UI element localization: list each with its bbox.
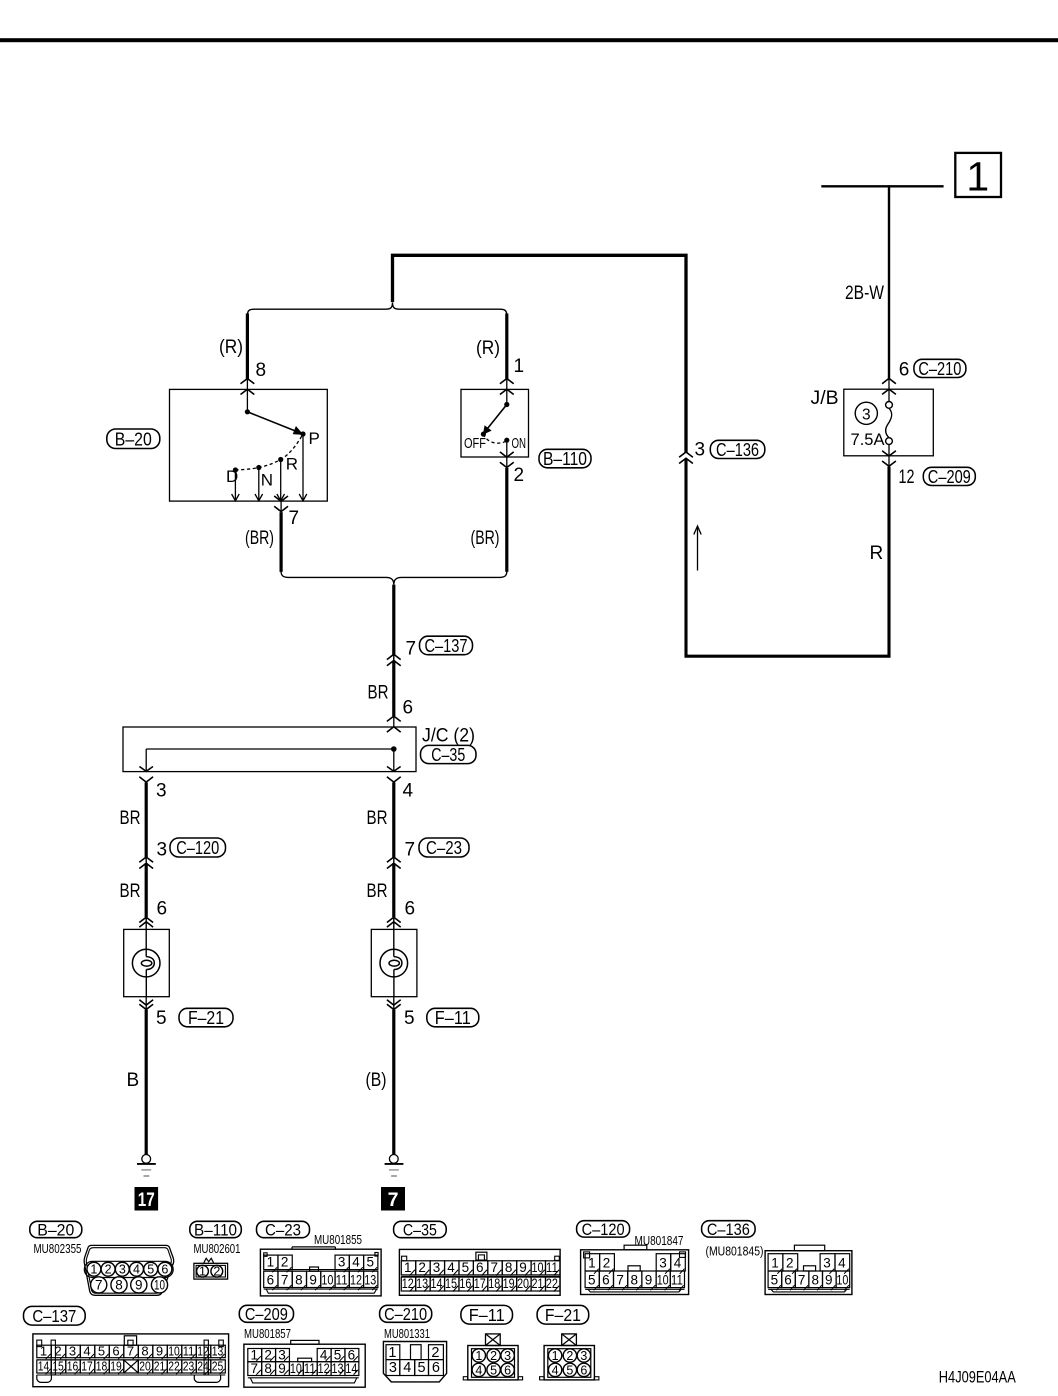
svg-text:1: 1 — [771, 1256, 779, 1271]
current direction arrow up — [697, 528, 699, 571]
C-137 cavity 4 — [80, 1345, 95, 1358]
svg-text:1: 1 — [552, 1349, 559, 1363]
C-137 cavity 3 — [66, 1345, 81, 1358]
C-137 cavity 14 — [37, 1360, 52, 1373]
svg-text:5: 5 — [98, 1344, 105, 1359]
svg-text:22: 22 — [168, 1359, 180, 1374]
C-209 cavity 8 — [262, 1362, 276, 1376]
dashed selector arc D-N-R-P — [235, 434, 303, 470]
joint connector J/C(2) box — [123, 727, 416, 772]
svg-text:8: 8 — [141, 1344, 148, 1359]
svg-text:17: 17 — [138, 1189, 155, 1211]
F-11 cavity 2 — [487, 1349, 500, 1362]
C-209 cavity 1 — [248, 1349, 262, 1362]
svg-text:11: 11 — [304, 1361, 316, 1376]
connector label pill C-136 — [710, 440, 765, 458]
svg-text:6: 6 — [112, 1344, 119, 1359]
brace merging BR wires — [281, 572, 507, 585]
svg-text:1: 1 — [388, 1345, 396, 1361]
svg-text:R: R — [870, 543, 884, 564]
B-20 cavity 5 — [144, 1262, 158, 1276]
svg-text:8: 8 — [505, 1260, 513, 1275]
svg-text:5: 5 — [156, 1008, 167, 1029]
svg-text:3: 3 — [580, 1349, 587, 1363]
C-23 cavity 12 — [349, 1271, 363, 1287]
C-35 cavity 1 — [401, 1261, 415, 1275]
B-20 position line D with arrow — [234, 470, 236, 500]
off-page reference box 1 — [955, 153, 1001, 197]
C-137 cavity 6 — [109, 1345, 124, 1358]
svg-text:4: 4 — [403, 781, 414, 802]
B-20 cavity 7 — [91, 1277, 107, 1293]
svg-text:H4J09E04AA: H4J09E04AA — [939, 1368, 1016, 1386]
svg-text:13: 13 — [332, 1361, 344, 1376]
legend pill C-137 — [24, 1306, 86, 1325]
C-209 cavity 6 — [345, 1349, 359, 1362]
wire BR from C-137 to J/C — [392, 661, 395, 717]
C-209 cavity 4 — [317, 1349, 331, 1362]
rear combination lamp left box — [124, 929, 170, 996]
svg-text:4: 4 — [83, 1344, 90, 1359]
svg-text:3: 3 — [823, 1256, 831, 1271]
C-209 cavity 9 — [276, 1362, 290, 1376]
B-20 cavity 8 — [111, 1277, 127, 1293]
svg-text:C–23: C–23 — [426, 837, 462, 858]
C-35 cavity 2 — [416, 1261, 430, 1275]
connector label pill B-20 — [107, 429, 160, 449]
svg-text:3: 3 — [659, 1256, 667, 1271]
C-23 cavity 4 — [349, 1255, 363, 1270]
F-11 cavity 4 — [472, 1363, 485, 1376]
connector label pill C-35 — [421, 745, 477, 763]
svg-text:1: 1 — [267, 1255, 275, 1270]
C-136 cavity 8 — [809, 1271, 823, 1288]
legend pill C-23 — [257, 1221, 310, 1237]
B-20 cavity 4 — [130, 1262, 144, 1276]
C-210 keyway cavity — [411, 1345, 422, 1360]
C-120 cavity 7 — [614, 1271, 628, 1288]
switch B-20 box (transmission range switch) — [170, 389, 328, 501]
C-136 cavity 1 — [768, 1254, 783, 1271]
svg-text:13: 13 — [364, 1273, 376, 1288]
bulb symbol right — [393, 917, 395, 956]
svg-text:1: 1 — [404, 1260, 412, 1275]
svg-text:24: 24 — [197, 1359, 209, 1374]
C-35 cavity 13 — [416, 1277, 430, 1291]
legend pill B-110 — [190, 1221, 242, 1237]
svg-text:6: 6 — [602, 1273, 610, 1288]
C-23 cavity 8 — [292, 1271, 306, 1287]
svg-text:C–120: C–120 — [582, 1220, 625, 1239]
C-35 cavity 5 — [459, 1261, 473, 1275]
C-35 cavity 14 — [430, 1277, 444, 1291]
J/C internal bus wire — [146, 748, 394, 750]
F-21 cavity 6 — [577, 1363, 590, 1376]
svg-text:C–210: C–210 — [384, 1304, 427, 1324]
svg-text:6: 6 — [899, 360, 910, 381]
F-21 cavity 4 — [548, 1363, 561, 1376]
wire BR C-120 to lamp — [145, 863, 148, 917]
svg-text:C–35: C–35 — [431, 744, 465, 765]
F-21 cavity 2 — [563, 1349, 576, 1362]
legend pill B-20 — [30, 1221, 82, 1237]
dashed arc OFF-ON — [483, 434, 506, 443]
svg-text:P: P — [309, 429, 320, 448]
C-120 cavity 3 — [656, 1254, 671, 1271]
C-120 cavity 8 — [628, 1271, 642, 1288]
B-110 cavity 1 — [197, 1265, 209, 1277]
svg-text:8: 8 — [256, 360, 267, 381]
connector label pill B-110 — [539, 449, 591, 468]
C-209 cavity 7 — [248, 1362, 262, 1376]
C-120 cavity 4 — [671, 1254, 686, 1271]
connector crossing out of right lamp pin 5 — [393, 997, 395, 1011]
connector label pill F-21 — [179, 1008, 233, 1027]
svg-text:7: 7 — [388, 1189, 399, 1211]
C-137 cavity 13 — [211, 1345, 226, 1358]
C-137 cavity 15 — [51, 1360, 66, 1373]
J/C junction dot — [391, 746, 397, 752]
B-20 position line N with arrow — [258, 468, 260, 501]
C-120 cavity 11 — [670, 1271, 684, 1288]
top border rule — [0, 38, 1058, 42]
svg-text:7.5A: 7.5A — [851, 430, 886, 449]
C-35 cavity 3 — [430, 1261, 444, 1275]
B-110 wire ON to pin 2 — [506, 440, 508, 457]
F-11 cavity 3 — [501, 1349, 514, 1362]
svg-text:2: 2 — [418, 1260, 426, 1275]
legend pill C-209 — [239, 1305, 293, 1322]
C-120 cavity 1 — [585, 1254, 600, 1271]
rear combination lamp right box — [371, 929, 417, 996]
B-110 cavity 2 — [211, 1265, 223, 1277]
svg-text:C–23: C–23 — [265, 1221, 301, 1240]
svg-text:(MU801845): (MU801845) — [706, 1245, 764, 1259]
C-137 cavity 11 — [182, 1345, 197, 1358]
svg-text:C–137: C–137 — [425, 635, 468, 656]
C-35 cavity 21 — [531, 1277, 545, 1291]
svg-text:3: 3 — [504, 1349, 511, 1363]
svg-text:(B): (B) — [366, 1070, 387, 1091]
svg-text:8: 8 — [631, 1273, 639, 1288]
svg-text:B–110: B–110 — [194, 1221, 237, 1240]
connector crossing at B-110 pin 2 — [506, 457, 508, 468]
svg-text:10: 10 — [168, 1344, 180, 1359]
svg-text:7: 7 — [281, 1273, 289, 1288]
svg-text:9: 9 — [156, 1344, 163, 1359]
ground reference tag 7 — [381, 1187, 405, 1211]
svg-text:BR: BR — [367, 808, 388, 829]
C-137 cavity 25 — [211, 1360, 226, 1373]
svg-text:F–21: F–21 — [188, 1007, 224, 1028]
C-35 cavity 12 — [401, 1277, 415, 1291]
svg-text:5: 5 — [771, 1273, 779, 1288]
C-137 cavity 2 — [51, 1345, 66, 1358]
svg-text:4: 4 — [552, 1363, 559, 1377]
svg-text:14: 14 — [345, 1361, 357, 1376]
C-136 cavity 7 — [795, 1271, 809, 1288]
ground reference tag 17 — [135, 1187, 159, 1211]
C-120 cavity 6 — [599, 1271, 613, 1288]
svg-text:2: 2 — [603, 1256, 611, 1271]
C-210 cavity 4 — [400, 1360, 415, 1376]
C-35 cavity 11 — [546, 1261, 560, 1275]
legend connector drawing B-20 — [84, 1245, 174, 1295]
C-35 cavity 15 — [445, 1277, 459, 1291]
svg-text:5: 5 — [366, 1255, 374, 1270]
svg-text:7: 7 — [405, 840, 416, 861]
svg-text:MU801331: MU801331 — [384, 1327, 430, 1341]
svg-text:11: 11 — [336, 1273, 348, 1288]
connector crossing into J/C pin 6 — [387, 716, 401, 721]
svg-text:C–35: C–35 — [403, 1221, 437, 1240]
svg-text:C–209: C–209 — [245, 1304, 288, 1324]
C-137 cavity 22 — [167, 1360, 182, 1373]
B-110 internal wire pin1 to pivot — [506, 389, 508, 404]
F-11 cavity 1 — [472, 1349, 485, 1362]
svg-text:10: 10 — [321, 1273, 333, 1288]
legend connector drawing B-110 — [204, 1258, 214, 1263]
svg-text:7: 7 — [95, 1278, 103, 1293]
wire power bus from box 1 — [821, 185, 943, 187]
connector label pill F-11 — [427, 1008, 479, 1027]
legend connector drawing C-136 — [765, 1251, 852, 1295]
svg-text:10: 10 — [290, 1361, 302, 1376]
connector label pill C-120 — [170, 838, 226, 857]
fuse 3 symbol in J/B — [888, 389, 890, 401]
wire 2B-W vertical feed — [888, 185, 890, 379]
svg-text:B–20: B–20 — [37, 1221, 74, 1240]
C-136 cavity 3 — [820, 1254, 835, 1271]
svg-text:5: 5 — [404, 1008, 415, 1029]
svg-text:1: 1 — [966, 154, 989, 200]
B-20 position line P with arrow — [302, 434, 304, 500]
C-35 cavity 16 — [459, 1277, 473, 1291]
C-35 cavity 10 — [531, 1261, 545, 1275]
svg-text:9: 9 — [825, 1273, 833, 1288]
svg-text:5: 5 — [490, 1363, 497, 1377]
svg-text:3: 3 — [157, 840, 168, 861]
C-209 cavity 11 — [303, 1362, 317, 1376]
B-20 cavity 1 — [87, 1262, 101, 1276]
connector label pill C-137 — [420, 636, 473, 655]
legend pill C-210 — [380, 1305, 432, 1322]
C-137 cavity 24 — [196, 1360, 211, 1373]
connector C-209 pin 12 crossing — [888, 456, 890, 467]
J/C exit chevron pin 3 — [139, 777, 153, 782]
B-20 pivot contact dot — [245, 409, 250, 414]
svg-text:6: 6 — [405, 899, 416, 920]
contact dot N — [256, 465, 261, 470]
svg-text:4: 4 — [403, 1360, 411, 1376]
C-23 cavity 10 — [321, 1271, 335, 1287]
B-20 internal wire pin8 to pivot — [246, 389, 248, 411]
svg-text:3: 3 — [862, 406, 871, 423]
C-35 cavity 20 — [517, 1277, 531, 1291]
legend connector drawing C-137 — [33, 1334, 229, 1387]
svg-text:D: D — [226, 467, 238, 486]
B-110 pivot contact dot — [504, 402, 509, 407]
C-120 cavity 9 — [642, 1271, 656, 1288]
svg-text:13: 13 — [212, 1344, 224, 1359]
F-11 cavity 6 — [501, 1363, 514, 1376]
svg-text:F–21: F–21 — [545, 1305, 581, 1325]
svg-text:1: 1 — [40, 1344, 47, 1359]
svg-text:17: 17 — [81, 1359, 93, 1374]
C-137 cavity 10 — [167, 1345, 182, 1358]
svg-text:4: 4 — [352, 1255, 360, 1270]
B-20 cavity 3 — [115, 1262, 129, 1276]
svg-text:12: 12 — [318, 1361, 330, 1376]
C-210 cavity 3 — [386, 1360, 400, 1376]
svg-text:5: 5 — [588, 1273, 596, 1288]
ground symbol left — [142, 1155, 151, 1164]
svg-text:6: 6 — [267, 1273, 275, 1288]
svg-text:1: 1 — [199, 1264, 206, 1278]
svg-text:C–120: C–120 — [176, 837, 219, 858]
legend pill C-35 — [394, 1221, 447, 1237]
wire BR J/C pin4 to C-23 — [392, 783, 395, 858]
svg-text:10: 10 — [657, 1273, 669, 1288]
C-137 cavity 18 — [95, 1360, 110, 1373]
svg-text:4: 4 — [475, 1363, 482, 1377]
svg-text:21: 21 — [154, 1359, 166, 1374]
wire (BR) from B-20 pin 7 — [280, 512, 283, 572]
svg-text:6: 6 — [504, 1363, 511, 1377]
svg-text:9: 9 — [135, 1278, 143, 1293]
svg-text:3: 3 — [119, 1262, 126, 1276]
svg-text:(R): (R) — [476, 338, 500, 359]
svg-text:1: 1 — [514, 356, 525, 377]
legend connector drawing C-209 — [244, 1344, 365, 1387]
contact dot R — [278, 457, 283, 462]
svg-text:B: B — [127, 1070, 140, 1091]
C-137 cavity 1 — [37, 1345, 52, 1358]
C-137 cavity 5 — [95, 1345, 110, 1358]
svg-text:7: 7 — [616, 1273, 624, 1288]
C-136 cavity 9 — [823, 1271, 837, 1288]
B-20 selector arm to P with arrowhead — [247, 412, 299, 433]
svg-text:BR: BR — [120, 808, 141, 829]
svg-text:25: 25 — [212, 1359, 224, 1374]
C-120 cavity 2 — [600, 1254, 615, 1271]
C-136 cavity 6 — [782, 1271, 796, 1288]
junction block J/B box — [844, 389, 934, 456]
svg-text:8: 8 — [811, 1273, 819, 1288]
svg-text:5: 5 — [462, 1260, 470, 1275]
legend connector drawing C-23 — [260, 1249, 381, 1296]
C-23 cavity 11 — [335, 1271, 349, 1287]
C-137 cavity 12 — [196, 1345, 211, 1358]
legend connector drawing C-120 — [581, 1250, 689, 1295]
C-35 cavity 4 — [445, 1261, 459, 1275]
svg-text:2: 2 — [566, 1349, 573, 1363]
svg-text:10: 10 — [836, 1273, 848, 1288]
C-209 cavity 2 — [262, 1349, 276, 1362]
C-209 cavity 12 — [317, 1362, 331, 1376]
C-137 cavity 9 — [153, 1345, 168, 1358]
wire (R) into B-110 pin 1 — [505, 314, 508, 379]
C-137 cavity 8 — [138, 1345, 153, 1358]
svg-text:B–20: B–20 — [115, 428, 152, 449]
B-110 switch arm to OFF with arrowhead — [488, 405, 507, 429]
C-35 cavity 7 — [488, 1261, 502, 1275]
svg-text:MU802355: MU802355 — [34, 1242, 82, 1256]
J/C exit chevron pin 4 — [387, 777, 401, 782]
svg-text:15: 15 — [52, 1359, 64, 1374]
svg-text:8: 8 — [295, 1273, 303, 1288]
C-35 cavity 22 — [546, 1277, 560, 1291]
svg-text:6: 6 — [784, 1273, 792, 1288]
B-20 cavity 2 — [101, 1262, 115, 1276]
svg-text:12: 12 — [197, 1344, 209, 1359]
svg-text:18: 18 — [96, 1359, 108, 1374]
C-136 cavity 4 — [835, 1254, 850, 1271]
connector C-137 pin 7 crossing — [393, 654, 395, 662]
svg-text:2: 2 — [281, 1255, 289, 1270]
svg-text:5: 5 — [566, 1363, 573, 1377]
svg-text:2: 2 — [514, 465, 525, 486]
F-21 cavity 3 — [577, 1349, 590, 1362]
svg-text:23: 23 — [183, 1359, 195, 1374]
legend connector drawing F-21 body — [544, 1346, 594, 1380]
svg-text:20: 20 — [139, 1359, 151, 1374]
svg-text:1: 1 — [475, 1349, 482, 1363]
legend connector drawing F-11 keyway — [486, 1334, 501, 1346]
connector C-120 pin 3 crossing — [145, 856, 147, 864]
svg-text:4: 4 — [838, 1256, 846, 1271]
C-136 cavity 2 — [783, 1254, 798, 1271]
C-35 cavity 19 — [502, 1277, 516, 1291]
svg-text:7: 7 — [289, 508, 300, 529]
legend connector drawing C-35 — [399, 1249, 560, 1295]
contact dot ON — [504, 438, 509, 443]
C-210 cavity 5 — [415, 1360, 429, 1376]
contact dot P — [300, 431, 305, 436]
C-23 cavity 5 — [364, 1255, 378, 1270]
svg-text:2B-W: 2B-W — [845, 283, 884, 304]
svg-text:2: 2 — [213, 1264, 220, 1278]
svg-text:12: 12 — [899, 467, 915, 488]
svg-text:1: 1 — [90, 1262, 97, 1276]
svg-text:F–11: F–11 — [435, 1007, 471, 1028]
wire B to ground left — [145, 1010, 148, 1155]
svg-text:C–210: C–210 — [918, 358, 961, 379]
svg-text:2: 2 — [54, 1344, 61, 1359]
B-20 cavity 6 — [158, 1262, 172, 1276]
fuse number circle 3 — [855, 402, 877, 424]
bulb symbol left — [145, 917, 147, 956]
svg-text:4: 4 — [674, 1256, 682, 1271]
C-23 cavity 2 — [278, 1255, 292, 1270]
connector label pill C-209 — [923, 467, 975, 485]
svg-text:5: 5 — [147, 1262, 154, 1276]
svg-text:MU802601: MU802601 — [194, 1242, 241, 1256]
svg-text:(BR): (BR) — [245, 528, 274, 549]
C-35 cavity 17 — [473, 1277, 487, 1291]
svg-text:5: 5 — [418, 1360, 426, 1376]
F-11 cavity 5 — [487, 1363, 500, 1376]
C-210 cavity 1 — [386, 1345, 400, 1360]
connector crossing into left lamp — [139, 917, 153, 922]
J/C internal drop right with arrow — [393, 749, 395, 771]
contact dot D — [233, 467, 238, 472]
C-137 cavity 7 — [124, 1345, 139, 1358]
C-23 cavity 7 — [278, 1271, 292, 1287]
connector label pill C-210 — [914, 359, 966, 377]
svg-text:11: 11 — [671, 1273, 683, 1288]
svg-text:BR: BR — [368, 683, 389, 704]
